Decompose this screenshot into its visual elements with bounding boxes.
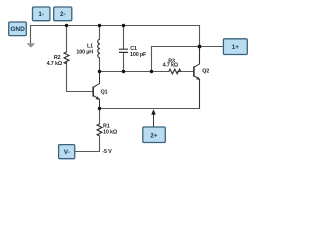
svg-text:Q2: Q2 xyxy=(202,69,209,75)
resistor R3 xyxy=(169,69,181,74)
svg-text:2-: 2- xyxy=(60,11,66,18)
wire L1 bottom lead xyxy=(99,58,101,72)
svg-text:Q1: Q1 xyxy=(101,89,108,95)
wire R2 top lead xyxy=(66,26,68,52)
node C1 bottom xyxy=(122,70,125,73)
wire ground drop xyxy=(30,26,32,44)
wire C1 bottom lead xyxy=(123,53,125,72)
terminal 2- xyxy=(54,7,72,21)
wire feedback top xyxy=(152,46,200,48)
wire output stub to 1+ xyxy=(200,46,224,48)
svg-text:10 kΩ: 10 kΩ xyxy=(103,129,118,135)
node rail-C1 xyxy=(122,24,125,27)
wire Q2 emitter drop xyxy=(199,79,201,108)
terminal V- xyxy=(59,145,75,159)
wire net-A horizontal xyxy=(100,71,169,73)
svg-text:1-: 1- xyxy=(38,11,44,18)
svg-text:4.7 kΩ: 4.7 kΩ xyxy=(47,61,63,67)
svg-text:2+: 2+ xyxy=(150,132,158,139)
terminal GND xyxy=(9,22,27,36)
wire top rail xyxy=(31,25,200,27)
svg-text:C1: C1 xyxy=(130,46,137,52)
svg-text:-5 V: -5 V xyxy=(102,149,112,155)
node output xyxy=(198,45,202,49)
wire feedback drop xyxy=(151,47,153,72)
node rail-L1 xyxy=(98,24,101,27)
transistor Q2 xyxy=(194,47,200,109)
svg-text:GND: GND xyxy=(10,26,25,33)
capacitor C1 xyxy=(119,49,128,52)
node R3 left xyxy=(150,70,153,73)
wire right vertical rail to Q2 collector xyxy=(199,26,201,64)
resistor R1 xyxy=(97,124,102,136)
junction dots xyxy=(65,24,202,110)
wire L1 top lead xyxy=(99,26,101,40)
wire R2 bottom lead to Q1 base xyxy=(67,62,93,91)
svg-text:4.7 kΩ: 4.7 kΩ xyxy=(163,63,179,69)
wire R1 top lead xyxy=(99,109,101,124)
wire R1 bottom lead and V- run xyxy=(75,136,100,151)
terminal 1+ xyxy=(223,39,247,55)
terminal 1- xyxy=(33,7,50,21)
inductor L1 xyxy=(98,39,100,58)
wire bottom rail xyxy=(100,108,200,110)
node L1-Q1 collector xyxy=(98,70,101,73)
svg-text:100 pF: 100 pF xyxy=(130,52,147,58)
wire C1 top lead xyxy=(123,26,125,50)
node rail-R2 xyxy=(65,24,68,27)
svg-text:V-: V- xyxy=(64,149,70,156)
ground xyxy=(27,43,36,48)
arrow from 2+ probe to bottom rail xyxy=(151,109,156,127)
node Q1 emitter xyxy=(98,107,101,110)
terminal 2+ xyxy=(143,127,166,143)
wire R3 to Q2 base xyxy=(178,71,194,73)
svg-text:1+: 1+ xyxy=(232,44,240,51)
resistor R2 xyxy=(64,52,69,64)
svg-text:100 µH: 100 µH xyxy=(76,50,93,56)
transistor Q1 xyxy=(93,72,100,109)
